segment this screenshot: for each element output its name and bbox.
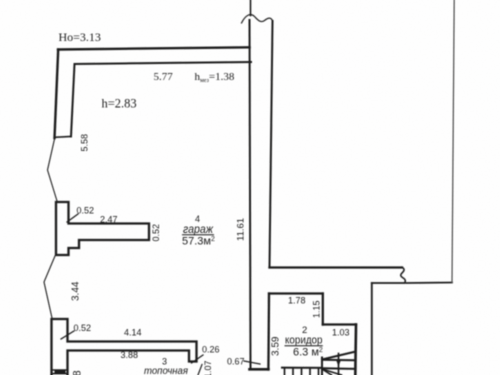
svg-text:5.58: 5.58	[80, 134, 90, 152]
svg-text:Но=3.13: Но=3.13	[59, 30, 101, 44]
svg-text:h=2.83: h=2.83	[102, 97, 137, 111]
svg-text:3: 3	[162, 357, 167, 367]
svg-text:4: 4	[195, 214, 200, 224]
svg-text:6.3 м2: 6.3 м2	[293, 347, 323, 359]
svg-text:0.52: 0.52	[74, 323, 92, 333]
svg-text:1.15: 1.15	[312, 300, 322, 318]
svg-text:коридор: коридор	[285, 335, 323, 347]
svg-text:1.78: 1.78	[288, 296, 306, 306]
svg-text:3.44: 3.44	[71, 281, 82, 301]
svg-text:11.61: 11.61	[236, 218, 247, 241]
svg-text:5.77: 5.77	[154, 71, 174, 83]
svg-text:1.03: 1.03	[332, 328, 350, 338]
svg-text:3.59: 3.59	[271, 336, 282, 356]
svg-text:топочная: топочная	[144, 366, 189, 375]
svg-text:8: 8	[72, 370, 84, 375]
svg-text:0.52: 0.52	[77, 206, 95, 216]
svg-text:0.26: 0.26	[202, 345, 220, 355]
svg-text:4.14: 4.14	[124, 328, 142, 338]
svg-text:0.67: 0.67	[227, 357, 245, 367]
svg-text:0.52: 0.52	[151, 224, 161, 242]
svg-text:3.88: 3.88	[121, 350, 139, 360]
svg-text:1.07: 1.07	[203, 360, 213, 375]
svg-text:2.47: 2.47	[100, 215, 118, 225]
svg-text:57.3м2: 57.3м2	[182, 236, 215, 248]
